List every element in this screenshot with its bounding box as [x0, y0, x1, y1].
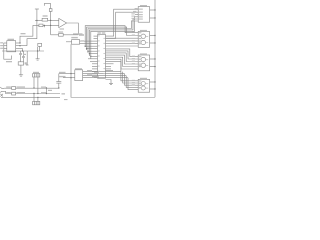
wire U2 left pin3: [4, 47, 7, 49]
IC U3 left pins: [85, 36, 97, 76]
component B1: [38, 43, 42, 46]
junction dots: [19, 9, 155, 98]
wire minus input rail: [35, 19, 59, 21]
wire U2 right pin1: [16, 42, 20, 44]
wire x37.6 down: [37, 47, 39, 59]
ground G2: [106, 80, 114, 85]
staircase M3: [106, 53, 139, 62]
IC U3: [98, 35, 106, 79]
wire rail3 y97.4: [1, 96, 60, 98]
wire T2 right up: [37, 97, 39, 101]
wire T2 left up: [33, 94, 35, 102]
staircase L2: [123, 72, 139, 83]
wire B1 down: [39, 46, 41, 51]
staircase M6: [106, 59, 139, 69]
wire U2 left pin1: [4, 42, 7, 44]
wire U2 right pin3: [16, 47, 23, 49]
capacitor C3: [56, 74, 61, 88]
wire VCC down: [27, 9, 37, 46]
elbow bus E3: [88, 21, 138, 53]
driver D4: [138, 79, 149, 92]
wire rail1 y88: [4, 87, 59, 89]
ground tick x27: [26, 64, 29, 66]
staircase L1: [106, 70, 114, 72]
resistor R3: [59, 34, 64, 37]
wire IC right pin to D1b: [106, 12, 139, 38]
wire D3 right pin1: [150, 58, 155, 60]
wire U10 out3: [83, 75, 127, 77]
wire op-amp output: [67, 23, 79, 35]
IC U3 right pins: [106, 61, 139, 81]
wire IC to D2 p3: [106, 37, 139, 39]
wire pin3 down to rail51: [22, 48, 24, 51]
D2 circle b: [141, 40, 145, 44]
staircase M4: [106, 55, 139, 64]
op-amp U1A: [59, 18, 67, 27]
crystal Y1: [18, 62, 23, 65]
wire U10 out4: [83, 77, 128, 79]
wire U9 to IC pin b: [80, 43, 94, 45]
wire T1 right down: [37, 77, 39, 94]
wire plus input rail: [33, 24, 59, 26]
wire U2 left pin2: [4, 45, 7, 47]
driver D1: [138, 7, 149, 23]
wire IC to D2 p5: [106, 43, 139, 45]
wire D4 right pin2: [150, 88, 155, 90]
resistor R4: [39, 24, 43, 27]
power VCC bar: [35, 8, 39, 10]
elbow bus E1: [85, 26, 138, 47]
mark rail3 x: [0, 94, 3, 97]
wire U9 to IC pin a: [80, 40, 94, 42]
wire T1 left down: [33, 77, 35, 88]
D1 left pin stubs: [135, 14, 138, 16]
staircase L4: [126, 76, 138, 88]
IC U2: [7, 41, 16, 52]
wire top elbow: [44, 4, 50, 9]
elbow bus E2: [87, 27, 139, 50]
transformer T1: [33, 74, 40, 77]
wire feedback rail: [51, 34, 79, 36]
fuse F2: [12, 92, 16, 95]
wire label stub: [63, 77, 75, 79]
D3 circle a: [141, 57, 145, 61]
text smudges: [0, 5, 147, 100]
staircase L5: [128, 78, 138, 90]
wire IC to D2 p6: [106, 45, 139, 47]
wire IC right pin to D1a: [106, 9, 139, 36]
connector J1: [0, 87, 4, 92]
wire D1 right pin1: [150, 9, 155, 11]
D2 circle a: [141, 34, 145, 38]
capacitor C1: [19, 51, 22, 62]
capacitor C2: [22, 51, 25, 62]
ground G1: [36, 58, 40, 60]
wire D3 right pin2: [150, 66, 155, 68]
wire U2 pin2 to VCC elbow: [20, 45, 27, 47]
wire rail2 y93.5: [4, 91, 60, 93]
D3 circle b: [141, 63, 145, 67]
wire rail y51: [2, 50, 44, 52]
staircase L3: [125, 74, 139, 86]
wire D2 right pin1: [150, 35, 155, 37]
wire plus5v to U10: [59, 73, 75, 75]
staircase M2: [106, 51, 139, 59]
D4 circle a: [141, 82, 145, 86]
wire U2 right pin2: [16, 45, 20, 47]
wire stub at 44.4: [43, 25, 45, 27]
IC U10: [75, 70, 83, 81]
resistor R1: [42, 18, 48, 21]
wire stub x27: [26, 51, 28, 65]
wire U2 left elbow: [4, 43, 12, 59]
wire D1 right pin2: [150, 17, 155, 19]
wire U9 left stub: [66, 41, 72, 43]
ground below Y1: [19, 74, 23, 76]
resistor R2: [49, 9, 52, 12]
transformer T2: [33, 101, 40, 104]
crystal box U9: [72, 40, 80, 45]
elbow bus E4: [89, 19, 138, 56]
wire long vertical x71: [71, 44, 155, 97]
wire U10 out2: [83, 73, 125, 75]
driver D2: [138, 32, 149, 48]
wire D4 right pin1: [150, 81, 155, 83]
wire x46.4 bridge: [45, 88, 47, 94]
elbow bus E5: [91, 17, 138, 59]
wire right rail: [154, 0, 156, 97]
wire IC to D2 p4: [106, 40, 139, 42]
staircase M1: [106, 49, 139, 57]
staircase M5: [106, 57, 139, 66]
wire U10 out1: [83, 71, 121, 73]
wire D2 right pin2: [150, 42, 155, 44]
wire Y1 down: [20, 65, 22, 75]
wire elbow A to plus rail: [20, 25, 33, 43]
fuse F1: [12, 87, 16, 90]
D4 circle b: [141, 86, 145, 90]
wire R2 down to feedback corner: [50, 11, 52, 34]
driver D3: [138, 55, 149, 71]
